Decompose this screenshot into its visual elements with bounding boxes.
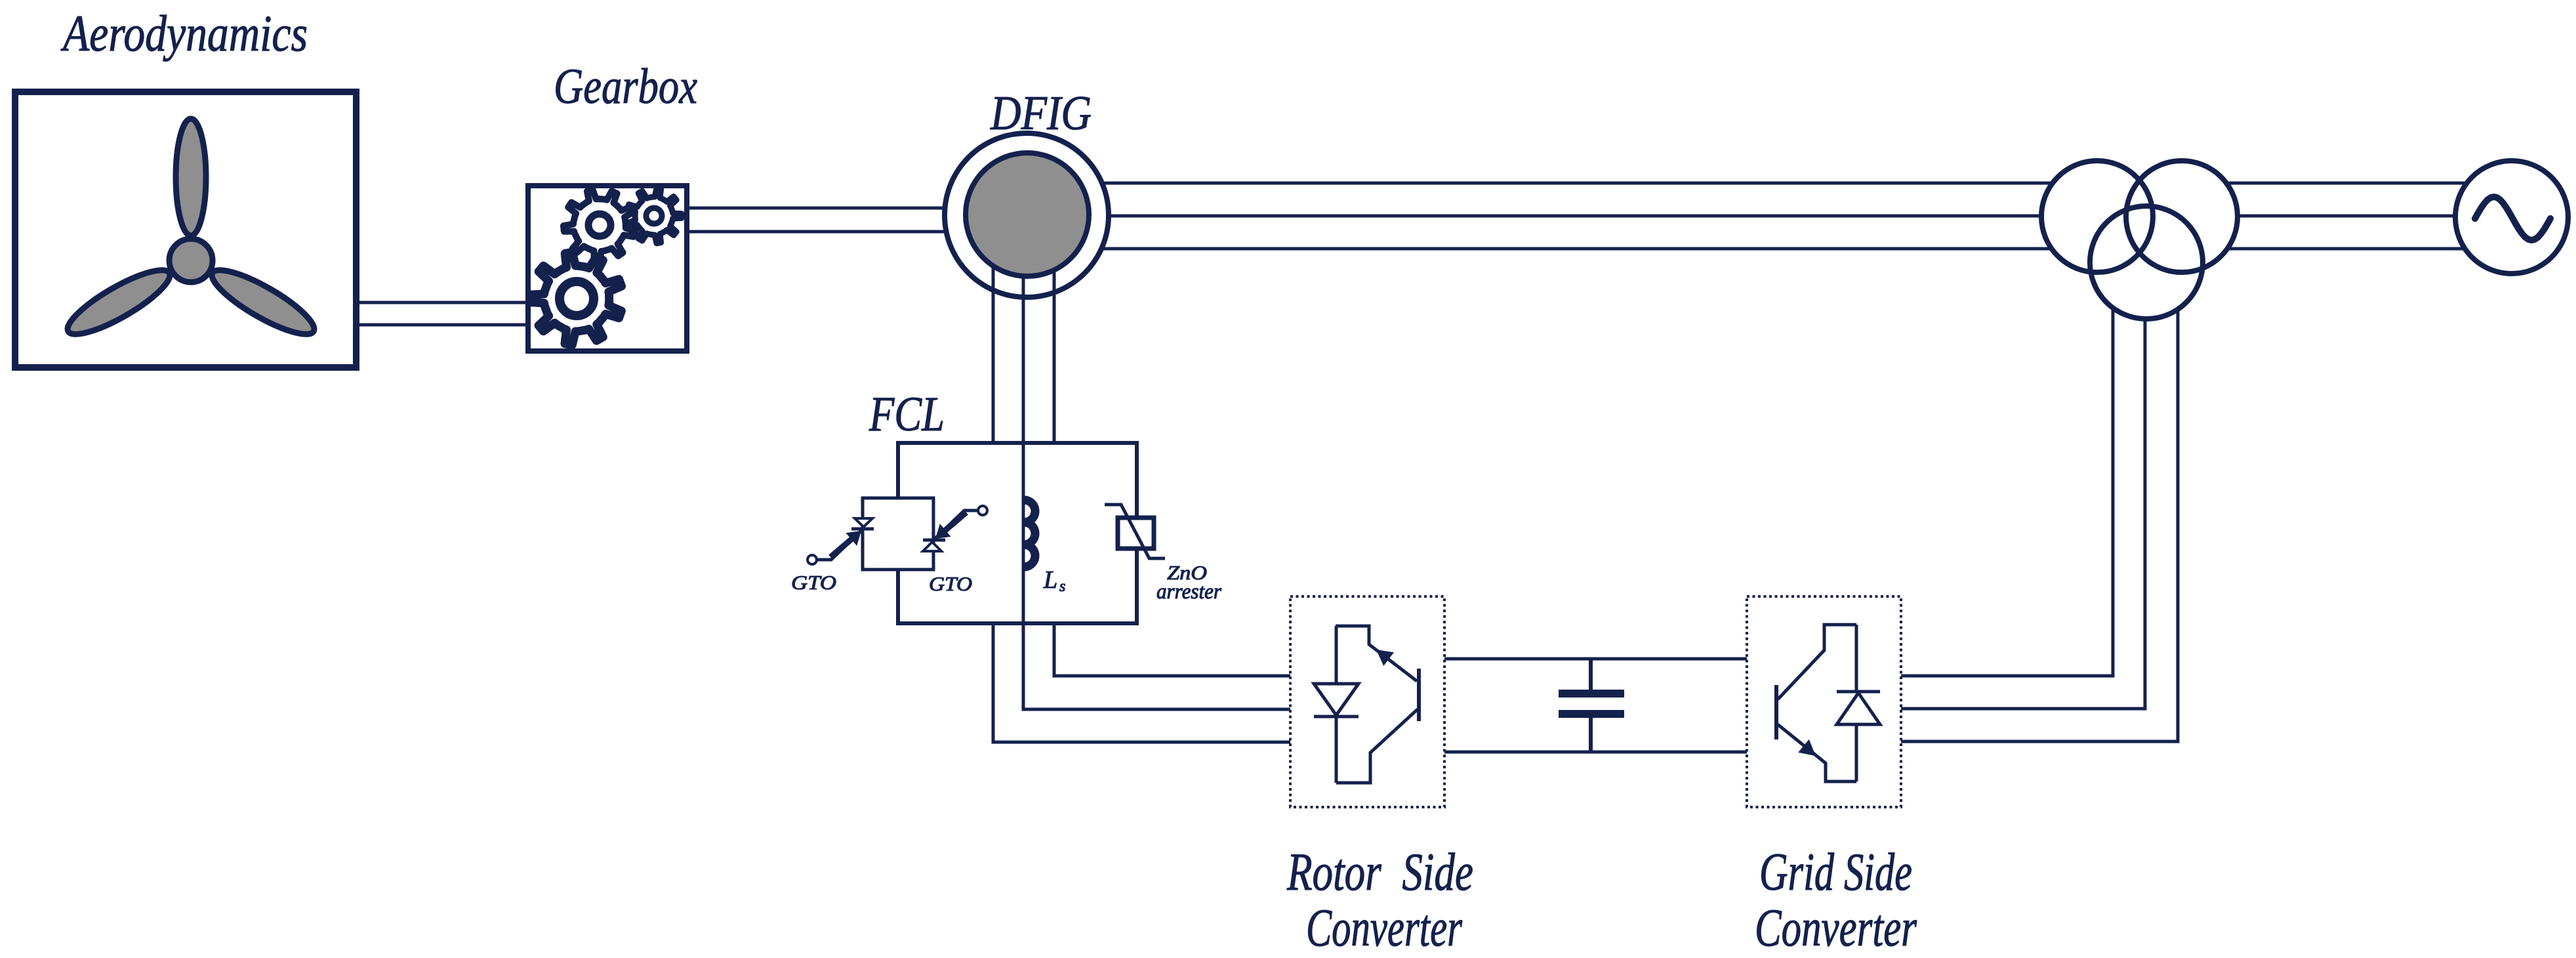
wire rotor phase a	[992, 223, 995, 443]
wire FCL middle branch	[1022, 443, 1025, 623]
FCL box left edge lower	[896, 568, 900, 625]
DC link capacitor	[1559, 659, 1624, 752]
transformer circle bottom	[2090, 206, 2203, 319]
svg-text:L: L	[1043, 566, 1057, 594]
FCL box right edge	[1135, 441, 1139, 625]
svg-text:FCL: FCL	[869, 387, 945, 442]
RSC IGBT	[1336, 626, 1419, 783]
wire stator phase 3	[1099, 247, 2051, 251]
wire rotor phase c	[1053, 223, 1056, 443]
wire gearbox-DFIG lower	[687, 230, 948, 234]
grid side converter box	[1747, 596, 1901, 807]
DFIG generator inner circle	[966, 153, 1089, 276]
svg-text:Rotor Side: Rotor Side	[1286, 842, 1473, 902]
wire stator phase 1	[1099, 182, 2053, 185]
wire FCL-RSC phase a	[993, 623, 1290, 742]
svg-text:Converter: Converter	[1306, 898, 1463, 955]
inductor Ls coil	[1024, 500, 1035, 567]
grid source circle	[2455, 161, 2568, 274]
transformer circle left	[2041, 161, 2153, 272]
FCL box bottom edge	[897, 621, 1137, 625]
gear medium	[563, 190, 635, 261]
gear large	[530, 252, 621, 344]
svg-text:GTO: GTO	[929, 572, 972, 595]
wire gearbox-DFIG upper	[687, 207, 948, 210]
svg-text:arrester: arrester	[1156, 580, 1221, 604]
wire grid phase 2	[2238, 215, 2457, 218]
svg-text:GTO: GTO	[791, 571, 836, 594]
wire FCL-RSC phase c	[1054, 623, 1290, 676]
DC bus bottom rail	[1444, 751, 1747, 754]
gear small	[628, 188, 682, 243]
rotor side converter box	[1290, 596, 1444, 807]
svg-text:s: s	[1059, 578, 1065, 595]
GTO thyristor right	[923, 506, 987, 551]
wire GSC phase a	[1901, 309, 2178, 741]
svg-text:Grid Side: Grid Side	[1759, 842, 1912, 902]
GSC diode	[1837, 625, 1880, 781]
transformer circle right	[2126, 161, 2238, 272]
wire shaft aero-gearbox lower	[359, 323, 528, 327]
grid source sine wave	[2475, 197, 2550, 240]
wire GSC phase b	[1901, 319, 2145, 709]
aerodynamics box	[15, 92, 356, 367]
FCL box top edge	[897, 441, 1137, 445]
GTO pair box	[863, 498, 933, 570]
RSC diode	[1314, 626, 1359, 783]
svg-text:Gearbox: Gearbox	[554, 59, 697, 114]
wire grid phase 3	[2228, 247, 2466, 251]
GTO thyristor left	[808, 518, 874, 564]
svg-text:Converter: Converter	[1755, 898, 1917, 955]
wire GSC phase c	[1901, 308, 2113, 676]
DC bus top rail	[1444, 657, 1747, 661]
wire stator phase 2	[1107, 215, 2041, 218]
wire FCL-RSC phase b	[1023, 623, 1290, 709]
GSC IGBT	[1776, 625, 1856, 781]
FCL box left edge upper	[896, 441, 900, 500]
wire grid phase 1	[2226, 182, 2468, 185]
gearbox box	[528, 186, 687, 351]
svg-text:Aerodynamics: Aerodynamics	[60, 5, 308, 62]
DFIG generator outer circle	[945, 133, 1109, 297]
ZnO arrester	[1105, 505, 1165, 558]
wire shaft aero-gearbox upper	[359, 301, 528, 304]
wind turbine rotor	[60, 119, 321, 344]
wire rotor phase b	[1022, 223, 1025, 445]
